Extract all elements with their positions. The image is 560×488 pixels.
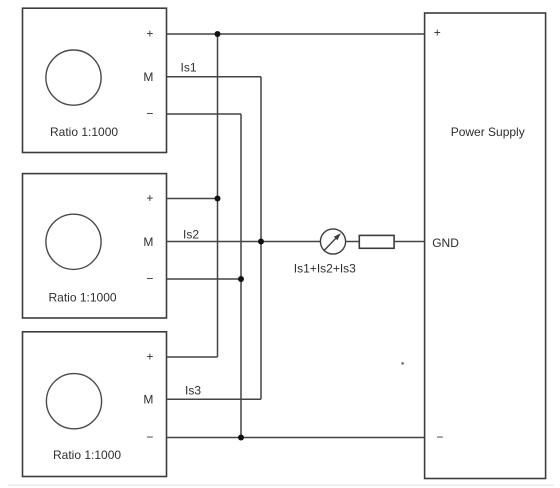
wire T3 + stub (167, 356, 218, 358)
faint page edge line (8, 484, 554, 486)
svg-text:Is1+Is2+Is3: Is1+Is2+Is3 (294, 261, 356, 275)
stray ink dot (402, 362, 404, 364)
svg-text:Power Supply: Power Supply (451, 125, 525, 139)
svg-text:+: + (146, 191, 153, 205)
junction dot - rail at T2 row (238, 276, 244, 282)
svg-text:Is1: Is1 (181, 61, 197, 75)
svg-text:M: M (143, 393, 153, 407)
wire meter to resistor (346, 241, 360, 243)
transformer T2 winding circle (46, 214, 101, 269)
wire M rail to meter (261, 241, 321, 243)
svg-text:Is3: Is3 (185, 384, 201, 398)
current transformer T3 box (23, 332, 167, 477)
svg-text:+: + (146, 349, 153, 363)
svg-text:Ratio 1:1000: Ratio 1:1000 (53, 448, 121, 462)
current transformer T2 box (23, 174, 167, 318)
svg-text:Ratio 1:1000: Ratio 1:1000 (50, 125, 118, 139)
wire + rail T1 to PS (167, 33, 425, 35)
svg-text:+: + (146, 26, 153, 40)
wire T1 M stub (167, 76, 262, 78)
wire T2 - stub (167, 278, 242, 280)
svg-text:−: − (146, 272, 153, 286)
junction dot M rail (258, 239, 264, 245)
wire T3 M stub (167, 398, 262, 400)
junction dot + rail at T1 row (215, 31, 221, 37)
svg-text:Is2: Is2 (183, 228, 199, 242)
svg-text:M: M (143, 70, 153, 84)
resistor R1 (359, 235, 394, 248)
svg-text:−: − (146, 430, 153, 444)
wire resistor to PS GND (394, 241, 425, 243)
wire T2 M stub (167, 241, 262, 243)
transformer T3 winding circle (46, 374, 101, 429)
wire T1 - stub (167, 113, 242, 115)
power supply PS box (425, 13, 546, 479)
wire T2 + stub (167, 198, 218, 200)
svg-text:+: + (434, 25, 441, 39)
svg-text:−: − (146, 107, 153, 121)
wire M rail vertical (260, 77, 262, 400)
svg-text:GND: GND (432, 236, 459, 250)
transformer T1 winding circle (46, 50, 101, 105)
wire - rail vertical (240, 114, 242, 438)
ammeter M1 (320, 229, 345, 254)
current transformer T1 box (23, 8, 167, 152)
svg-text:M: M (143, 235, 153, 249)
wire + rail vertical (217, 34, 219, 357)
junction dot - rail at T3 row (238, 435, 244, 441)
svg-text:Ratio 1:1000: Ratio 1:1000 (49, 290, 117, 304)
svg-text:−: − (436, 430, 443, 444)
junction dot + rail at T2 row (215, 196, 221, 202)
wire - rail T3 to PS (167, 437, 425, 439)
